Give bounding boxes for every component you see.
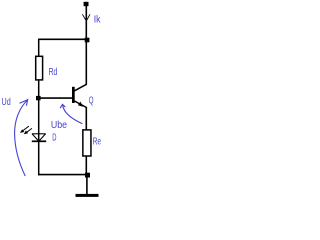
wire: top rail xyxy=(38,38,85,40)
voltage arrow Ud xyxy=(15,100,28,176)
ground symbol xyxy=(76,194,99,197)
wire: emitter down to Re xyxy=(85,107,87,130)
current arrow Ik xyxy=(82,14,90,21)
svg-text:Ik: Ik xyxy=(94,14,102,25)
terminal pad (supply pin) xyxy=(84,2,89,6)
LED light arrows xyxy=(20,126,32,134)
voltage arrow Ube xyxy=(60,104,82,123)
node: collector junction xyxy=(85,38,90,43)
wire: base node down to diode xyxy=(38,100,40,142)
transistor Q base bar xyxy=(72,87,75,103)
svg-text:Ud: Ud xyxy=(2,97,11,108)
resistor Rd xyxy=(36,56,43,80)
transistor Q collector stroke xyxy=(74,84,87,91)
node: emitter junction xyxy=(85,173,90,178)
wire: collector up to node xyxy=(85,41,87,85)
transistor Q emitter stroke with arrow xyxy=(74,101,87,108)
wire: diode down to bottom rail xyxy=(38,141,40,175)
diode D (LED) xyxy=(32,134,46,142)
node: base junction xyxy=(36,96,41,100)
wire: bottom rail xyxy=(38,174,86,176)
wire: Re down to emitter node xyxy=(85,156,87,174)
wire: left branch top xyxy=(38,39,40,57)
wire: Rd to base node xyxy=(38,81,40,97)
wire: supply pin down to collector node xyxy=(85,6,87,39)
wire: node down to ground xyxy=(86,177,88,194)
resistor Re xyxy=(83,130,91,156)
wire: base wire xyxy=(39,97,73,99)
svg-text:Rd: Rd xyxy=(49,67,58,78)
svg-text:D: D xyxy=(52,133,56,144)
svg-text:Q: Q xyxy=(89,96,94,107)
svg-text:Re: Re xyxy=(93,136,102,147)
svg-text:Ube: Ube xyxy=(51,120,68,131)
